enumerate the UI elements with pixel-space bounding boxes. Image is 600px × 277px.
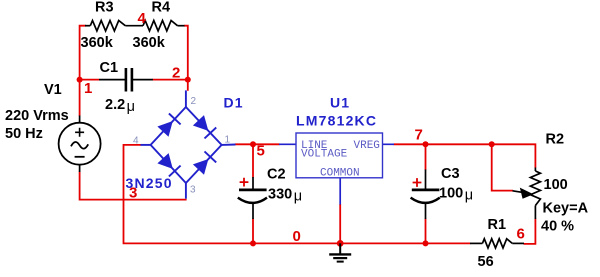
svg-text:3: 3 (129, 185, 137, 202)
svg-text:C1: C1 (100, 60, 119, 76)
svg-text:2.2μ: 2.2μ (105, 97, 135, 115)
svg-text:R1: R1 (488, 217, 507, 233)
svg-text:6: 6 (517, 226, 525, 243)
svg-text:U1: U1 (330, 95, 350, 111)
svg-text:0: 0 (293, 228, 301, 245)
svg-text:5: 5 (257, 143, 265, 160)
svg-text:2: 2 (172, 65, 180, 82)
svg-text:COMMON: COMMON (320, 167, 360, 179)
svg-text:56: 56 (478, 254, 494, 270)
svg-text:C3: C3 (441, 166, 460, 182)
svg-text:V1: V1 (44, 82, 62, 98)
svg-text:VOLTAGE: VOLTAGE (301, 149, 348, 161)
svg-text:1: 1 (84, 80, 92, 97)
svg-text:Key=A: Key=A (543, 201, 589, 217)
svg-text:100μ: 100μ (439, 186, 473, 204)
svg-text:360k: 360k (81, 35, 114, 51)
svg-text:100: 100 (544, 177, 568, 193)
svg-text:40 %: 40 % (541, 219, 574, 235)
svg-text:VREG: VREG (354, 140, 380, 152)
svg-text:R3: R3 (95, 0, 114, 16)
svg-text:D1: D1 (224, 95, 244, 111)
svg-text:C2: C2 (267, 167, 286, 183)
svg-text:R2: R2 (546, 132, 565, 148)
svg-text:7: 7 (415, 127, 423, 144)
svg-text:R4: R4 (152, 0, 171, 16)
svg-text:360k: 360k (133, 35, 166, 51)
svg-text:1: 1 (225, 135, 231, 146)
svg-text:2: 2 (191, 96, 197, 107)
svg-text:4: 4 (138, 10, 147, 27)
svg-text:3: 3 (190, 185, 196, 196)
svg-text:220 Vrms: 220 Vrms (5, 108, 69, 124)
svg-text:4: 4 (133, 136, 139, 147)
svg-text:50 Hz: 50 Hz (5, 126, 43, 142)
svg-text:330μ: 330μ (268, 187, 302, 205)
svg-text:LM7812KC: LM7812KC (296, 112, 377, 128)
